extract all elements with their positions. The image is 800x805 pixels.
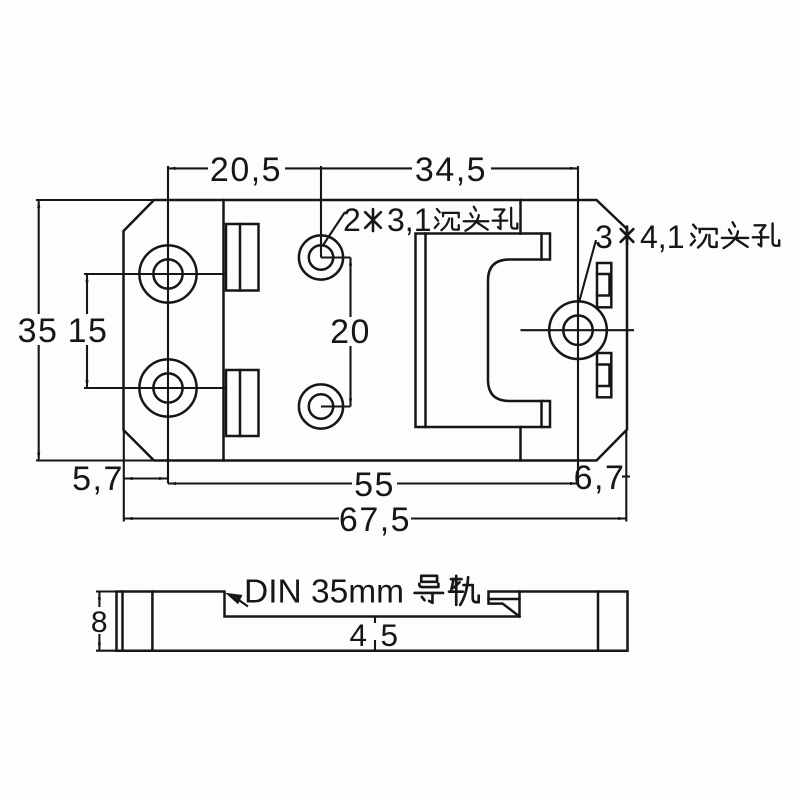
leader 3x4.1 — [579, 240, 596, 303]
side view — [117, 592, 628, 651]
left tab bottom — [226, 370, 259, 436]
svg-text:35: 35 — [18, 312, 59, 350]
ext line 35 top — [36, 199, 154, 201]
rail slot connector bottom — [519, 427, 522, 461]
centerline right hole vertical — [577, 166, 579, 484]
side inner verticals — [121, 592, 124, 651]
dim line 35 — [38, 200, 40, 314]
label 3*4.1 — [595, 219, 684, 255]
dim line 8 — [98, 592, 100, 608]
svg-text:3,1: 3,1 — [387, 202, 431, 238]
头 — [722, 222, 748, 248]
svg-text:5: 5 — [380, 617, 399, 653]
din clip outline — [416, 234, 551, 428]
svg-text:DIN 35mm: DIN 35mm — [244, 574, 404, 611]
left tab top — [226, 224, 259, 291]
svg-text:20: 20 — [330, 313, 371, 351]
沉 (2*3.1 label) — [435, 209, 459, 230]
dim line 34.5 — [491, 167, 578, 169]
ext lines for 8 — [96, 590, 117, 592]
step line left — [222, 200, 225, 461]
dim tick 4.5 lower — [374, 640, 376, 651]
dim line 20.5 — [168, 167, 209, 169]
centerline small hole top horizontal — [321, 256, 351, 258]
hole left top — [139, 245, 196, 302]
孔 — [753, 224, 779, 247]
头 — [464, 207, 489, 231]
small hole bottom — [299, 384, 343, 428]
ext line left edge down — [123, 430, 125, 522]
dim line 20 — [349, 258, 351, 318]
centerline small hole bottom horizontal — [321, 405, 351, 407]
dim tick 4.5 upper — [374, 617, 376, 624]
centerline right hole horizontal — [521, 329, 635, 331]
hook lip — [489, 592, 520, 617]
svg-text:34,5: 34,5 — [415, 151, 487, 189]
svg-text:4,1: 4,1 — [640, 219, 684, 255]
centerline small holes vertical — [320, 166, 322, 258]
din clip inner edge — [424, 234, 427, 428]
right slot bottom — [597, 353, 611, 397]
svg-text:3: 3 — [595, 219, 613, 255]
dim line 15 — [86, 274, 88, 314]
导 — [415, 576, 443, 603]
svg-text:15: 15 — [68, 312, 109, 350]
svg-text:4: 4 — [349, 617, 368, 653]
star 2*3.1 — [365, 209, 381, 231]
svg-text:2: 2 — [343, 202, 361, 238]
plate outline top view — [124, 200, 628, 461]
dim line 67.5 — [125, 517, 340, 519]
rail slot connector top — [519, 200, 522, 234]
side outline — [117, 592, 628, 651]
hole left bottom — [139, 359, 196, 416]
ext line 35 bottom — [36, 459, 154, 461]
label 2*3.1 — [343, 202, 431, 238]
centerline left holes vertical — [167, 166, 169, 484]
leader 2x3.1 — [323, 212, 346, 246]
din clip tab inner lines — [540, 234, 543, 260]
centerline left hole bottom horizontal — [84, 387, 226, 389]
leader DIN — [238, 600, 248, 607]
arrowheads — [37, 167, 626, 520]
small hole top — [299, 235, 343, 279]
svg-text:55: 55 — [354, 466, 395, 504]
孔 — [493, 208, 518, 229]
star 3*4.1 — [621, 227, 634, 245]
dimension texts — [18, 151, 626, 653]
dim line 6.7 visible stub — [622, 475, 630, 477]
right slot top — [597, 263, 611, 307]
轨 — [449, 576, 479, 605]
ext line right edge down — [625, 430, 627, 522]
svg-text:20,5: 20,5 — [210, 151, 282, 189]
dim line 55 — [168, 482, 352, 484]
CJK glyphs drawn as strokes — [415, 207, 780, 605]
centerline left hole top horizontal — [84, 273, 226, 275]
hole right — [549, 301, 607, 359]
svg-text:8: 8 — [91, 606, 109, 639]
leader arrow DIN — [225, 593, 243, 605]
沉 (3*4.1 label) — [691, 225, 717, 248]
svg-text:67,5: 67,5 — [339, 501, 411, 539]
dim line 5.7 — [125, 477, 168, 479]
svg-text:5,7: 5,7 — [72, 460, 124, 498]
svg-text:6,7: 6,7 — [574, 459, 626, 497]
